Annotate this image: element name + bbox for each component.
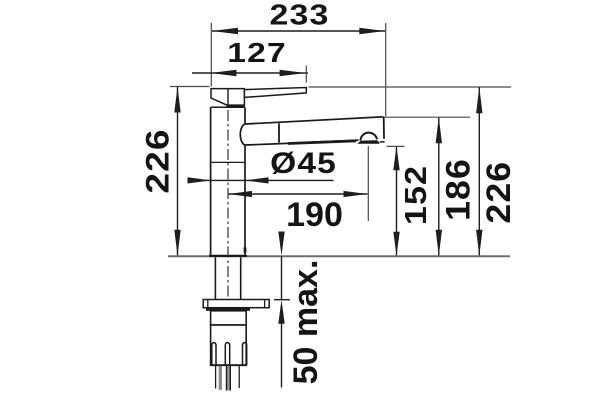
hose band 2 [219, 366, 222, 390]
spout left rounded cap [240, 124, 245, 145]
label diameter 45 [270, 145, 337, 179]
dimension 127 [192, 70, 308, 77]
dimension 152 [393, 146, 399, 256]
label 226 right (rotated) [480, 161, 518, 224]
svg-text:186: 186 [439, 158, 477, 221]
countertop line [168, 255, 510, 257]
hose line 4 [238, 366, 240, 388]
label 50 max (rotated) [287, 260, 325, 385]
svg-text:226: 226 [141, 128, 176, 193]
spray head seam [278, 123, 280, 142]
mounting bracket [211, 325, 247, 365]
handle block thick bottom [227, 104, 245, 107]
mounting flange [203, 300, 269, 308]
dimension 190 [228, 191, 368, 197]
spout bottom right short line [380, 141, 385, 143]
flange right inner edge [264, 300, 266, 308]
faucet body right edge upper [244, 107, 246, 124]
svg-text:226: 226 [480, 161, 518, 224]
dimension 190 right extension line [367, 146, 369, 221]
spout bottom thick shadow [288, 141, 356, 144]
label 233 [269, 0, 329, 31]
faucet body right edge lower [244, 145, 246, 256]
dimension 226 right [476, 87, 482, 256]
shank right edge [240, 257, 242, 299]
spout bottom edge [246, 140, 359, 145]
stud prong 3 [243, 343, 247, 365]
handle cartridge block [211, 89, 244, 106]
svg-text:Ø45: Ø45 [270, 145, 337, 179]
dimension 233 top [212, 28, 385, 35]
label 152 (rotated) [399, 165, 433, 225]
dimension 226 left [174, 87, 180, 256]
svg-text:190: 190 [286, 196, 343, 234]
dimension 233 extension lines [211, 23, 385, 116]
label 127 [227, 37, 287, 69]
dimension diameter 45 [188, 177, 334, 183]
aerator dark base [357, 140, 379, 144]
label 226 left (rotated) [141, 128, 176, 193]
svg-text:152: 152 [399, 165, 433, 225]
handle top extension line (left of handle) [170, 86, 210, 88]
handle block inner edge [227, 89, 229, 106]
svg-text:233: 233 [269, 0, 329, 31]
faucet body left edge [210, 107, 212, 256]
faucet centerline [227, 110, 229, 338]
hose tube 3 [226, 366, 230, 391]
gasket dark bar [206, 308, 250, 311]
faucet body seam [211, 161, 245, 163]
locknut [211, 311, 247, 325]
stud prong 1 [212, 343, 216, 365]
dimension 50 max [274, 232, 290, 388]
bracket bottom thick line [210, 364, 247, 366]
faucet body top edge [211, 106, 245, 108]
dimension 152 top extension line [387, 145, 405, 147]
svg-text:127: 127 [227, 37, 287, 69]
stud prong 2 [225, 343, 229, 365]
spout end cap [383, 117, 385, 139]
countertop dark segment under body [209, 255, 247, 257]
dimension 186 [436, 117, 442, 256]
hose line 1 [215, 366, 217, 389]
dimension 127 right extension line [305, 66, 307, 83]
spout top edge [246, 117, 384, 124]
label 186 (rotated) [439, 158, 477, 221]
handle top extension line (right of lever to 226) [309, 86, 512, 88]
flange left inner edge [207, 300, 209, 308]
aerator dome [360, 133, 377, 141]
handle lever [244, 88, 306, 98]
faucet body right edge tick [244, 248, 247, 253]
shank left edge [214, 257, 216, 299]
svg-text:50 max.: 50 max. [287, 260, 325, 385]
dimension 186 top extension line (spout top level) [385, 116, 471, 118]
